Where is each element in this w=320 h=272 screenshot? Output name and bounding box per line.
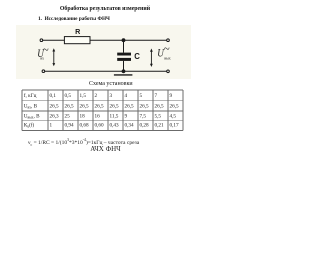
- formula line: [28, 138, 139, 147]
- svg-text:0,43: 0,43: [110, 123, 119, 129]
- svg-text:26,5: 26,5: [125, 103, 134, 109]
- svg-text:0,94: 0,94: [65, 123, 74, 129]
- wire capacitor stem bottom: [123, 61, 125, 71]
- svg-text:25: 25: [65, 114, 71, 120]
- node junction top: [122, 38, 126, 42]
- wire top-right: [90, 39, 167, 41]
- schematic background: [16, 25, 191, 79]
- wire top-left: [43, 39, 65, 41]
- svg-text:Кu(f): Кu(f): [24, 122, 35, 129]
- input terminal top: [40, 39, 43, 42]
- svg-text:16: 16: [95, 114, 101, 120]
- wire bottom rail: [45, 70, 167, 72]
- svg-text:26,5: 26,5: [170, 103, 179, 109]
- svg-text:18: 18: [80, 114, 86, 120]
- caption under schematic: [89, 81, 133, 87]
- svg-text:26,5: 26,5: [50, 103, 59, 109]
- arrow Uvyh: [150, 49, 153, 68]
- svg-text:1: 1: [50, 123, 53, 129]
- svg-text:5,5: 5,5: [155, 114, 162, 120]
- svg-text:7: 7: [155, 93, 158, 99]
- svg-text:0,17: 0,17: [170, 123, 179, 129]
- svg-text:4,5: 4,5: [170, 114, 177, 120]
- table grid: [22, 90, 183, 130]
- svg-text:26,5: 26,5: [65, 103, 74, 109]
- svg-text:7,5: 7,5: [140, 114, 147, 120]
- svg-text:26,3: 26,3: [50, 114, 59, 120]
- svg-text:2: 2: [95, 93, 98, 99]
- svg-text:9: 9: [170, 93, 173, 99]
- svg-text:26,5: 26,5: [155, 103, 164, 109]
- title line: [0, 6, 210, 12]
- svg-text:26,5: 26,5: [110, 103, 119, 109]
- svg-text:0,5: 0,5: [65, 93, 72, 99]
- table text: [24, 92, 179, 129]
- AFC caption: [0, 145, 211, 153]
- circuit schematic image: [16, 25, 191, 79]
- svg-text:0,60: 0,60: [95, 123, 104, 129]
- svg-text:4: 4: [125, 93, 128, 99]
- svg-text:0,28: 0,28: [140, 123, 149, 129]
- output terminal bottom: [167, 70, 170, 73]
- wire capacitor stem top: [123, 40, 125, 52]
- svg-text:9: 9: [125, 114, 128, 120]
- svg-text:0,21: 0,21: [155, 123, 164, 129]
- heading 1: [38, 16, 110, 22]
- svg-text:0,1: 0,1: [50, 93, 57, 99]
- node junction bottom: [122, 69, 126, 73]
- resistor R: [64, 37, 90, 44]
- svg-text:Uвх, В: Uвх, В: [24, 103, 38, 109]
- svg-text:0,68: 0,68: [80, 123, 89, 129]
- svg-text:5: 5: [140, 93, 143, 99]
- svg-text:26,5: 26,5: [95, 103, 104, 109]
- capacitor C plate top: [117, 53, 131, 56]
- input terminal bottom: [42, 70, 45, 73]
- svg-text:3: 3: [110, 93, 113, 99]
- svg-text:1,5: 1,5: [80, 93, 87, 99]
- svg-text:Uвых, В: Uвых, В: [24, 114, 40, 120]
- ground bar: [114, 74, 132, 76]
- output terminal top: [167, 39, 170, 42]
- data table: [0, 0, 210, 160]
- svg-text:26,5: 26,5: [140, 103, 149, 109]
- arrow Uvx: [52, 48, 55, 66]
- svg-text:26,5: 26,5: [80, 103, 89, 109]
- svg-text:11,5: 11,5: [110, 114, 119, 120]
- svg-text:0,34: 0,34: [125, 123, 134, 129]
- capacitor C plate bottom: [117, 58, 131, 61]
- svg-text:f, кГц: f, кГц: [24, 92, 37, 99]
